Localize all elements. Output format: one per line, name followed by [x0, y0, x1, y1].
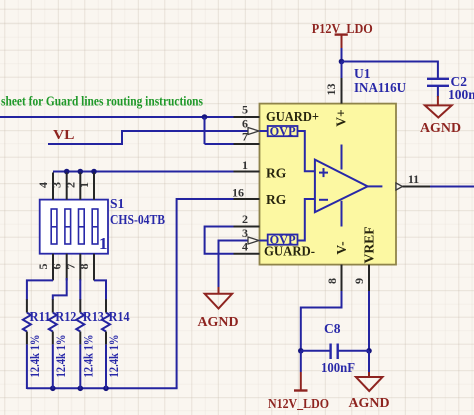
junction dot S1 col2: [64, 169, 70, 175]
junction dot S1 col4: [91, 169, 97, 175]
svg-text:1: 1: [77, 182, 91, 188]
svg-text:CHS-04TB: CHS-04TB: [110, 212, 165, 227]
wire S1 pin7 drop to R13: [79, 279, 81, 300]
op-amp minus input mark: [319, 199, 328, 201]
svg-text:5: 5: [36, 264, 50, 270]
svg-text:R11: R11: [30, 309, 51, 324]
svg-text:AGND: AGND: [198, 314, 239, 329]
svg-text:OVP: OVP: [270, 125, 296, 139]
U1 pin 8 stub: [341, 265, 343, 291]
wire resistor bottom bus: [27, 387, 178, 389]
op-amp output lead: [368, 185, 383, 187]
wire RG pin 1 horizontal: [53, 171, 234, 173]
svg-text:RG: RG: [266, 192, 287, 207]
wire vertical junction drop to pin 7: [204, 117, 206, 144]
U1 pin 7 stub: [234, 143, 260, 145]
svg-text:S1: S1: [110, 196, 125, 211]
U1 pin 4 stub: [234, 253, 260, 255]
svg-text:U1: U1: [354, 66, 371, 81]
svg-text:4: 4: [36, 182, 50, 188]
wire S1 pin5 jog to R11: [27, 280, 53, 300]
wire GUARD- loop pin2 to pin4: [205, 227, 234, 254]
svg-text:16: 16: [232, 186, 244, 200]
S1 switch element 4: [92, 209, 98, 244]
S1 pin 8 (bottom col 4): [93, 254, 95, 281]
svg-text:V+: V+: [334, 109, 349, 126]
svg-text:sheet for Guard lines routing: sheet for Guard lines routing instructio…: [1, 94, 203, 109]
wire VL horizontal lower segment: [48, 143, 122, 145]
resistor R14: [102, 299, 130, 389]
power port N12V_LDO: [268, 372, 329, 411]
U1 pin 16 stub: [234, 198, 260, 200]
wire pin 9 to VREF node: [368, 291, 370, 351]
junction dot V- node: [298, 348, 304, 354]
svg-text:RG: RG: [266, 166, 287, 181]
op-amp plus input mark: [319, 168, 328, 177]
svg-text:13: 13: [324, 84, 338, 96]
capacitor C2: [427, 74, 474, 102]
svg-text:12.4k 1%: 12.4k 1%: [27, 335, 42, 378]
S1 pin 3 (top col 2): [66, 173, 68, 200]
AGND symbol (middle, pin 3): [205, 287, 232, 309]
wire long vertical pin16 to resistor bus: [176, 198, 178, 388]
op-amp V- feed stub: [341, 201, 343, 227]
IC U1 body: [260, 104, 397, 265]
wire P12V to junction: [341, 48, 343, 62]
junction dot S1 col3: [78, 169, 84, 175]
svg-text:6: 6: [242, 117, 248, 131]
junction dot VREF node: [366, 348, 372, 354]
wire VL to pin 6 OVP arrow: [122, 130, 249, 132]
junction dot bus R13: [78, 386, 84, 392]
S1 pin 1 (top col 4): [93, 173, 95, 200]
AGND symbol (top, C2): [425, 96, 452, 118]
U1 OVP- box: [260, 199, 315, 247]
U1 pin 9 stub: [368, 265, 370, 291]
svg-text:3: 3: [242, 226, 248, 240]
power port P12V_LDO: [312, 21, 373, 48]
wire C2 to AGND: [437, 86, 439, 97]
svg-text:3: 3: [50, 182, 64, 188]
svg-text:R14: R14: [109, 309, 130, 324]
junction dot on GUARD+ wire: [202, 114, 208, 120]
U1 pin 3 OVP arrow: [248, 237, 259, 244]
S1 pin 4 (top col 1): [52, 173, 54, 200]
svg-text:2: 2: [242, 212, 248, 226]
resistor R12: [49, 299, 77, 389]
wire pin 8 to V- node: [301, 291, 342, 351]
S1 pin 6 (bottom col 2): [66, 254, 68, 281]
S1 pin 5 (bottom col 1): [52, 254, 54, 281]
switch S1 body: [40, 200, 108, 254]
U1 pin 11 output arrow: [396, 183, 403, 190]
junction dot bus R12: [50, 386, 56, 392]
svg-text:5: 5: [242, 103, 248, 117]
svg-text:11: 11: [408, 172, 419, 186]
S1 switch element 2: [65, 209, 71, 244]
svg-text:7: 7: [242, 130, 248, 144]
svg-text:C8: C8: [324, 321, 341, 336]
U1 pin 1 stub: [234, 171, 260, 173]
svg-text:8: 8: [77, 264, 91, 270]
svg-text:100nF: 100nF: [448, 87, 474, 102]
svg-text:1: 1: [99, 234, 108, 253]
svg-text:12.4k 1%: 12.4k 1%: [53, 335, 68, 378]
wire net GUARD+ horizontal to pin 5: [0, 116, 234, 118]
resistor R13: [76, 299, 104, 389]
U1 pin 2 stub: [234, 226, 260, 228]
wire V+ node to C2: [342, 62, 438, 79]
svg-text:GUARD+: GUARD+: [266, 109, 319, 124]
svg-text:100nF: 100nF: [321, 360, 355, 375]
svg-text:8: 8: [325, 278, 339, 284]
svg-text:V-: V-: [334, 241, 349, 254]
AGND symbol (bottom right): [356, 372, 383, 391]
svg-text:VL: VL: [53, 127, 75, 142]
svg-text:12.4k 1%: 12.4k 1%: [106, 335, 121, 378]
svg-text:1: 1: [242, 158, 248, 172]
junction dot bus R14: [103, 386, 109, 392]
wire VL vertical step: [121, 130, 123, 145]
U1 pin 5 stub: [234, 116, 260, 118]
capacitor C8: [301, 321, 369, 375]
svg-text:7: 7: [63, 264, 77, 270]
junction dot V+ node: [339, 59, 345, 65]
U1 pin 6 OVP arrow: [248, 128, 259, 135]
wire OVP- pin3 to AGND: [219, 241, 250, 289]
svg-text:AGND: AGND: [349, 395, 390, 410]
resistor R11: [23, 299, 51, 389]
wire output to right edge: [430, 186, 474, 188]
S1 pin 2 (top col 3): [79, 173, 81, 200]
svg-text:VREF: VREF: [362, 227, 377, 264]
U1 pin 11 stub: [403, 186, 431, 188]
wire V- node down: [300, 351, 302, 372]
U1 pin 13 stub: [341, 78, 343, 104]
U1 OVP+ box: [260, 125, 315, 172]
op-amp triangle inside U1: [315, 160, 368, 213]
wire VREF node down: [368, 351, 370, 373]
S1 pin 7 (bottom col 3): [79, 254, 81, 281]
S1 switch element 1: [51, 209, 57, 244]
wire RG pin 16 horizontal: [177, 198, 234, 200]
svg-text:R13: R13: [83, 309, 104, 324]
wire horizontal into pin 7: [205, 143, 234, 145]
wire S1 pin6 jog to R12: [53, 278, 67, 300]
wire junction to pin 13: [341, 62, 343, 79]
svg-text:R12: R12: [55, 309, 76, 324]
svg-text:4: 4: [242, 240, 248, 254]
wire S1 pin8 jog to R14: [94, 280, 106, 300]
svg-text:INA116U: INA116U: [354, 80, 406, 95]
svg-text:12.4k 1%: 12.4k 1%: [80, 335, 95, 378]
S1 switch element 3: [79, 209, 85, 244]
op-amp V+ feed stub: [341, 145, 343, 170]
svg-text:AGND: AGND: [420, 120, 461, 135]
svg-text:2: 2: [63, 182, 77, 188]
svg-text:N12V_LDO: N12V_LDO: [268, 396, 329, 411]
svg-text:9: 9: [352, 278, 366, 284]
svg-text:GUARD-: GUARD-: [264, 244, 315, 259]
svg-text:6: 6: [49, 264, 63, 270]
